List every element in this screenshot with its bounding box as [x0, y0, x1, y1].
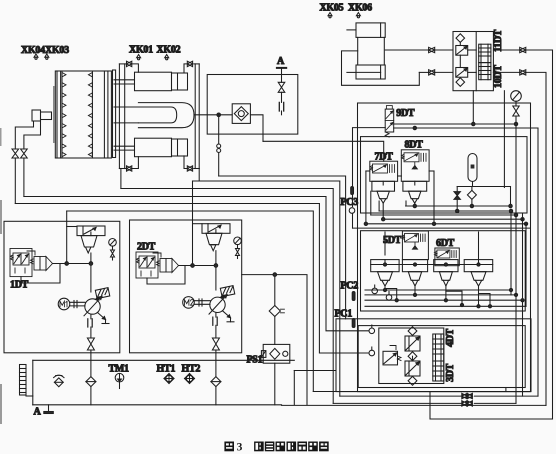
svg-text:XK02: XK02: [157, 45, 181, 56]
node dot pump1: [65, 262, 93, 266]
wire 8DT cartridge drop: [414, 203, 416, 206]
cartridge 8DT: [403, 181, 427, 203]
tank top line: [33, 359, 295, 361]
shaft M1 to pump1: [70, 301, 85, 308]
label HT2: [182, 364, 201, 375]
pressure reducing valve 34: [383, 346, 401, 365]
svg-text:XK06: XK06: [348, 3, 372, 14]
wire rail right to bus: [198, 169, 200, 182]
wire 2DT to pump column: [179, 251, 216, 290]
wire cartridge cross link: [371, 264, 493, 266]
accumulator charge cylinder top: [356, 23, 385, 79]
check diamond 4DT top: [408, 327, 417, 336]
wire 5-1 drop: [385, 286, 397, 300]
wire cylinder enclosure: [342, 51, 420, 85]
shutoff valve line10 right: [520, 70, 526, 75]
motor M2: [183, 297, 195, 309]
wire 1DT to pump column: [53, 253, 91, 292]
port circle 56 a: [372, 285, 378, 294]
fan drive shaft: [32, 110, 52, 121]
label XK02: [157, 45, 181, 56]
wire rail bottom left: [119, 157, 138, 169]
filter relief block pump1: [77, 226, 105, 236]
label XK05: [320, 3, 344, 14]
test nipple PC2: [352, 292, 355, 301]
svg-text:5DT: 5DT: [383, 235, 402, 246]
label 7DT: [375, 152, 394, 163]
svg-text:4DT: 4DT: [445, 328, 456, 347]
cartridge 6-2: [464, 232, 493, 286]
svg-text:1DT: 1DT: [10, 280, 29, 291]
wire pump1 feed riser: [67, 211, 77, 264]
wire accumulator manifold: [457, 187, 510, 207]
shutoff valve A: [278, 82, 285, 92]
wire rail bottom right: [184, 156, 199, 169]
wire manifold riser x511: [510, 211, 512, 295]
wire pump1 filter to tank: [90, 387, 92, 405]
wire block internal: [460, 42, 476, 72]
pressure switch PS1 box: [261, 344, 289, 363]
ground symbol A bottom: [44, 405, 54, 414]
bottom row e drain loop: [430, 392, 553, 419]
relief valve pump1 bottom: [87, 338, 94, 350]
svg-text:A: A: [34, 407, 42, 418]
solenoid square 3DT: [405, 361, 420, 376]
wire pump2 to filter: [215, 350, 217, 377]
pump1 drain stub: [98, 313, 110, 324]
wire A valve to coupling: [281, 92, 283, 102]
U pipe middle: [138, 103, 194, 128]
section box 5DT 6DT: [361, 231, 526, 311]
wire check valve to right riser: [250, 115, 263, 142]
wire 5-2 drop: [414, 286, 416, 295]
bus row 56 out 2: [365, 294, 516, 296]
wire left drop 2 to bus: [23, 158, 25, 197]
bottom row a: [313, 391, 506, 393]
wire check box riser to 7DT: [263, 141, 384, 161]
wire rail top left: [119, 64, 138, 72]
label 9DT: [396, 108, 415, 119]
label 3DT rotated: [445, 363, 456, 382]
relief part 2DT: [153, 253, 179, 273]
svg-text:8DT: 8DT: [405, 140, 424, 151]
label PC2: [341, 281, 359, 292]
wire 7DT side links: [366, 171, 434, 224]
shutoff valves row b: [462, 393, 473, 398]
port circle 56 b: [386, 292, 392, 301]
wire U to check valve: [194, 114, 232, 116]
shutoff valve cyl bottom left: [127, 166, 132, 171]
wire 7DT cartridge drop: [382, 203, 384, 219]
bus line left 4: [24, 196, 326, 198]
label TM1: [109, 364, 130, 375]
pilot box pump2: [220, 286, 234, 298]
svg-text:PC3: PC3: [341, 197, 359, 208]
bus row 56 out 4: [365, 305, 526, 307]
heat exchanger radiator body: [55, 70, 115, 158]
check diamond lower: [456, 78, 465, 87]
svg-text:10DT: 10DT: [493, 65, 504, 88]
valve 8DT box: [401, 150, 429, 182]
piston rod lines top: [114, 80, 135, 84]
caption title pseudo hanzi: [254, 442, 329, 452]
shutoff valves row c: [462, 401, 473, 406]
svg-text:HT1: HT1: [157, 364, 176, 375]
svg-text:HT2: HT2: [182, 364, 201, 375]
wire left drop 1 to bus: [14, 158, 16, 204]
heater HT1: [164, 374, 174, 384]
bottom row b with shutoffs: [340, 395, 538, 397]
hydraulic cylinder top: [135, 72, 188, 91]
svg-text:A: A: [277, 56, 285, 67]
label PS1: [247, 355, 263, 366]
wire block bottom drop: [472, 91, 474, 124]
pump P2: [209, 295, 227, 315]
spool stack upper: [479, 44, 491, 62]
wire to valve block upper: [435, 49, 453, 51]
wire 1DT bottom drop: [21, 264, 60, 284]
valve 5DT box: [402, 231, 428, 260]
pressure gauge pump1: [109, 239, 117, 261]
wire right risers: [457, 213, 526, 396]
label PC1: [335, 309, 353, 320]
pump2 drain stub: [223, 311, 235, 322]
wire A down: [281, 68, 283, 82]
port circle 34 b: [369, 347, 375, 356]
spool hatch block 34: [433, 334, 444, 381]
pump unit box 1: [4, 221, 120, 352]
wire block right lower to shutoff: [493, 71, 519, 73]
wire cylinder bottom to valve XK: [419, 71, 428, 73]
check diamond PS1 line: [269, 306, 284, 317]
wire riser x505: [505, 388, 507, 392]
wire 34 internal: [412, 335, 414, 361]
cartridge 5-2: [402, 260, 427, 286]
svg-text:6DT: 6DT: [436, 238, 455, 249]
test point symbol XK06: [356, 13, 360, 18]
cylinder mounting rail right: [195, 64, 199, 169]
svg-text:9DT: 9DT: [396, 108, 415, 119]
bus row 7DT-8DT out 6: [353, 227, 530, 229]
heater HT2: [185, 374, 195, 384]
valve 6DT box: [435, 248, 460, 266]
solenoid square upper: [456, 46, 468, 56]
svg-text:XK01: XK01: [129, 45, 153, 56]
label 5DT: [383, 235, 402, 246]
shutoff valve cyl bottom right: [187, 166, 192, 171]
bus row 7DT-8DT out 4: [383, 218, 522, 220]
svg-text:2DT: 2DT: [137, 242, 156, 253]
solenoid valve 9DT: [385, 106, 394, 137]
test nipple PC3: [351, 187, 354, 195]
cartridge 7DT: [372, 181, 395, 203]
svg-text:3DT: 3DT: [445, 363, 456, 382]
test point symbol XK02: [165, 55, 169, 60]
label XK03: [45, 45, 69, 56]
wire pump2 feed riser: [193, 181, 203, 266]
label XK01: [129, 45, 153, 56]
label 6DT: [436, 238, 455, 249]
node A label: [277, 56, 285, 67]
node dots bus56: [383, 288, 524, 308]
cartridge 5-1: [371, 232, 399, 286]
node A ground bar: [277, 67, 286, 69]
coupling II pump1: [88, 319, 92, 327]
radiator left teeth: [62, 73, 66, 157]
accumulator: [468, 154, 477, 182]
port circle 34 a: [369, 325, 375, 334]
svg-text:XK04: XK04: [21, 45, 45, 56]
wire feed port34b: [319, 204, 369, 354]
solenoid square 4DT: [405, 336, 420, 351]
bus row 56 out 3: [365, 299, 522, 301]
check diamond mid: [408, 352, 417, 361]
wire cylinder stubs left: [347, 30, 356, 73]
tank bottom line: [33, 404, 282, 406]
air breather: [54, 375, 64, 386]
bottom row d tank return: [282, 404, 547, 406]
svg-text:PC2: PC2: [341, 281, 359, 292]
wire block to accumulator line: [503, 91, 505, 187]
pressure gauge pump2: [234, 237, 242, 259]
check diamond upper: [456, 34, 465, 43]
label XK04: [21, 45, 45, 56]
filter cone pump1: [81, 232, 97, 253]
wire shaft to left drop 2: [24, 120, 41, 149]
svg-text:XK05: XK05: [320, 3, 344, 14]
solenoid valve 1DT: [10, 249, 32, 277]
wire riser top links: [503, 187, 505, 189]
thermometer TM1: [115, 373, 124, 388]
check valve enclosure box: [207, 75, 298, 135]
wire cylinder top to valve XK: [385, 49, 428, 51]
label A bottom: [34, 407, 42, 418]
label 8DT: [405, 140, 424, 151]
wire 9DT left to PC3 drop: [353, 128, 386, 207]
label 1DT: [10, 280, 29, 291]
scan artifact left edge: [0, 128, 2, 424]
bus line left 1: [219, 176, 346, 319]
shaft M2 to pump2: [194, 299, 210, 306]
bus line left 6: [67, 211, 314, 392]
caption figure 3: [224, 442, 242, 454]
right outer enclosure box: [358, 103, 531, 392]
wire pump1 down: [90, 314, 92, 338]
wire J1 down with petcock: [217, 115, 221, 176]
wire PS1 column mid: [274, 317, 276, 345]
wire rail left to bus: [120, 169, 122, 189]
U pipe stubs: [114, 107, 138, 123]
label HT1: [157, 364, 176, 375]
wire PS1 top line: [242, 275, 307, 405]
wire shutoff to far right riser: [526, 50, 553, 419]
section inner box 3DT 4DT: [358, 326, 525, 388]
wire 9DT out line b: [394, 128, 538, 396]
wire 6-2 drop: [479, 286, 491, 307]
shutoff valve line11 right: [520, 47, 526, 52]
label XK06: [348, 3, 372, 14]
label PC3: [341, 197, 359, 208]
label 2DT: [137, 242, 156, 253]
accumulator isolation valve: [454, 187, 460, 212]
wire accumulator down: [472, 182, 474, 187]
test point symbol XK03: [45, 54, 49, 59]
wire rail top right: [184, 64, 199, 73]
solenoid square lower: [456, 68, 468, 78]
wire pump1 to filter: [90, 350, 92, 377]
node J1: [217, 113, 221, 117]
check diamond 3DT bottom: [408, 376, 417, 385]
suction strainer: [20, 365, 33, 397]
bus row 56 out 1: [365, 289, 511, 291]
wire shaft to left drop 1: [15, 121, 33, 149]
pilot check valve block 10DT 11DT: [453, 32, 493, 91]
shutoff valve cyl top right: [187, 61, 192, 66]
port PC3 circle: [349, 208, 355, 228]
motor M1: [58, 298, 70, 310]
test point symbol XK04: [34, 54, 38, 59]
filter diamond pump2: [211, 377, 221, 387]
bus line left 3: [121, 189, 333, 404]
svg-text:XK03: XK03: [45, 45, 69, 56]
node dots cartridge link: [383, 263, 480, 266]
filter relief block pump2: [202, 224, 230, 234]
valve 7DT box: [370, 161, 398, 181]
test nipple PC1: [352, 319, 355, 328]
shutoff valve left 1: [12, 149, 19, 158]
spool stack lower: [479, 63, 491, 80]
quick coupling II on A line: [279, 102, 283, 111]
bus row 7DT-8DT out 3: [371, 214, 516, 216]
label 11DT rotated: [493, 29, 504, 52]
wire drain return right: [294, 371, 336, 405]
node dots 9DT lines: [413, 122, 518, 129]
relief valve pump2 bottom: [212, 338, 219, 350]
bottom row c with shutoffs: [333, 402, 516, 404]
node dots bus rows: [364, 204, 528, 225]
section box 7DT 8DT: [361, 137, 528, 213]
svg-text:3: 3: [237, 442, 243, 454]
shutoff valve line10 left: [429, 70, 435, 75]
label 4DT rotated: [445, 328, 456, 347]
node dot pump2: [191, 264, 218, 268]
wire block right upper to shutoff: [493, 49, 519, 51]
relief part 1DT: [27, 251, 53, 271]
shutoff valve left 2: [21, 149, 28, 158]
shutoff valve line11 left: [429, 47, 435, 52]
wire A coupling to main: [281, 111, 283, 115]
test point symbol XK05: [328, 13, 332, 18]
pump unit box 2: [130, 220, 242, 353]
wire pump2 filter to tank: [215, 387, 217, 405]
radiator mounting bar: [53, 86, 55, 143]
piston rod lines bottom: [114, 146, 135, 150]
wire 6-1 drop: [446, 286, 462, 305]
bus line left 5: [15, 203, 319, 205]
filter diamond pump1: [86, 377, 96, 387]
solenoid valve 2DT: [136, 252, 158, 278]
svg-text:11DT: 11DT: [493, 29, 504, 52]
bus row 7DT-8DT out 1: [406, 205, 511, 207]
wire to valve block lower: [435, 71, 453, 73]
tank left wall: [32, 360, 34, 405]
wire PS1 to tank: [274, 363, 276, 405]
test point symbol XK01: [137, 55, 141, 60]
svg-text:TM1: TM1: [109, 364, 130, 375]
section outer box 3DT 4DT: [336, 319, 531, 392]
wire pump2 down: [215, 313, 217, 339]
pilot box pump1: [95, 288, 109, 300]
svg-text:7DT: 7DT: [375, 152, 394, 163]
label 10DT rotated: [493, 65, 504, 88]
svg-text:PC1: PC1: [335, 309, 353, 320]
bus line left 2: [193, 181, 340, 396]
wire 9DT out line a: [394, 123, 516, 125]
gauge shutoff valve: [513, 101, 519, 116]
wire 2DT bottom drop: [147, 266, 185, 285]
shutoff valve cyl top left: [127, 61, 132, 66]
accumulator check diamond: [467, 187, 476, 207]
node dot PS1 top: [273, 273, 277, 277]
coupling II pump2: [213, 317, 217, 325]
bus row 7DT-8DT out 5: [366, 223, 526, 225]
pressure gauge top right: [511, 91, 522, 102]
pump P1: [84, 296, 102, 316]
wire shutoff to right riser two: [526, 72, 546, 405]
filter cone pump2: [206, 230, 222, 251]
wire feed port34a: [326, 197, 369, 331]
hydraulic cylinder bottom: [135, 138, 188, 157]
radiator right teeth: [88, 73, 92, 157]
wire gauge riser: [515, 116, 517, 403]
cylinder mounting rail left: [119, 64, 124, 169]
check valve C1: [232, 104, 250, 124]
wire PS1 column top: [274, 275, 276, 306]
valve body 3DT 4DT: [379, 328, 444, 384]
bus row 7DT-8DT out 2: [379, 210, 511, 212]
cartridge 6-1: [434, 260, 458, 286]
